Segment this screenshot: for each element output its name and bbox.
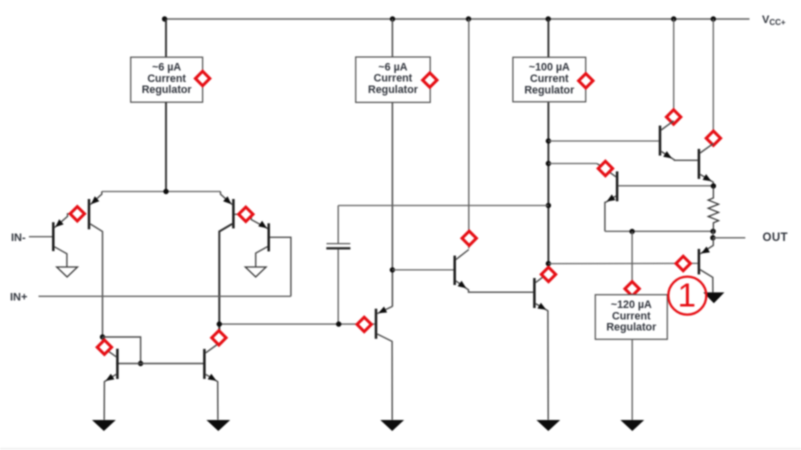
transistor Q6m emitter to ground	[206, 374, 218, 420]
wire Q9 base from U3 bus	[548, 140, 658, 142]
marker diamond on Q1-Q2 pair	[70, 207, 84, 221]
transistor Q9 collector diagonal	[661, 121, 674, 130]
svg-text:Current: Current	[612, 310, 651, 322]
current regulator U3 ~100uA box	[513, 57, 586, 102]
transistor Q10 NPN base bar	[698, 149, 701, 179]
node U3 bus to Q11 collector wire	[546, 161, 551, 166]
node U3 bus to compensation capacitor wire	[546, 203, 551, 208]
transistor Q4 base wire to IN+	[270, 237, 291, 296]
open arrow V- symbol under Q1	[57, 267, 78, 277]
capacitor C1 lead top	[337, 206, 339, 244]
wire resistor bottom to OUT node	[712, 231, 714, 238]
wire mirror node to mirror bases	[103, 337, 141, 364]
transistor Q6 NPN base bar	[453, 256, 456, 285]
transistor Q8 NPN base bar	[533, 278, 536, 308]
transistor Q8 collector	[536, 273, 549, 283]
transistor Q1 collector	[55, 247, 67, 267]
transistor Q2 emitter with arrow to emitter rail	[90, 192, 102, 205]
marker diamond on Q6m	[212, 331, 226, 345]
transistor Q2 collector wire down to mirror node	[90, 224, 102, 337]
node top rail junction at second-stage collector branch	[466, 16, 471, 21]
transistor Q11 emitter down	[605, 196, 616, 231]
transistor Q6m collector	[206, 343, 220, 353]
wire from rail to current regulator U3	[547, 19, 549, 57]
transistor Q4 collector	[256, 247, 268, 267]
node mirror base junction	[138, 361, 143, 366]
transistor Q7 collector to ground	[377, 334, 392, 420]
marker diamond on U3	[579, 74, 593, 88]
current regulator U2 ~6uA box	[356, 57, 431, 102]
marker diamond on Q10 collector	[706, 131, 720, 145]
marker diamond on U2	[423, 73, 437, 87]
wire IN- to Q1 base	[29, 236, 52, 238]
wire Q11 base to resistor top node	[618, 185, 713, 187]
current regulator U4 ~120uA box	[595, 295, 667, 340]
ground under Q6m	[206, 420, 230, 431]
node OUT junction	[710, 235, 715, 240]
wire compensation capacitor top plate to U3 bus	[338, 205, 548, 207]
transistor Q7 PNP base bar	[375, 309, 378, 339]
transistor Q2 input PNP base bar	[88, 199, 91, 229]
marker diamond on Q8	[541, 267, 555, 281]
node top rail junction at Q10 collector branch	[711, 16, 716, 21]
wire Q9 collector to rail	[673, 19, 675, 121]
wire rail down to second stage collector	[468, 19, 470, 249]
svg-text:Current: Current	[147, 73, 186, 85]
transistor Q11 collector to U3 bus wire	[597, 164, 616, 177]
wire input pair common emitter rail	[102, 191, 221, 193]
wire OUT terminal	[713, 237, 745, 239]
svg-text:Regulator: Regulator	[368, 84, 418, 96]
transistor Q7 emitter from U2 wire	[377, 306, 392, 313]
transistor Q1 emitter with arrow to base of Q2	[55, 214, 87, 228]
svg-text:Current: Current	[374, 73, 413, 85]
wire U3 output bus down to Q8 collector node	[547, 102, 549, 276]
wire from U1 down to input-pair emitter rail	[165, 102, 167, 191]
marker diamond on Q5	[97, 340, 111, 354]
marker diamond on Q3-Q4 pair	[239, 207, 253, 221]
ground under Q8	[536, 420, 560, 431]
node capacitor bottom junction	[336, 321, 341, 326]
transistor Q3 collector dark wire down to mirror node	[219, 224, 232, 343]
wire from U2 down to Q7 emitter	[391, 102, 393, 306]
node U3 bus to output base wire	[546, 261, 551, 266]
transistor Q6 collector	[456, 250, 469, 260]
wire output stage base drive from U3 bus	[548, 262, 697, 264]
marker diamond on Q7 base	[357, 317, 371, 331]
node top rail junction at Q9 collector branch	[671, 16, 676, 21]
transistor Q3 emitter with arrow to emitter rail	[221, 192, 233, 205]
wire U4 to ground	[631, 339, 633, 420]
node first-stage output mirror node left	[100, 334, 105, 339]
capacitor C1 lead bottom	[337, 250, 339, 325]
marker diamond on Q11	[598, 161, 612, 175]
transistor Q3 base wire to Q4 emitter	[235, 214, 268, 228]
svg-text:~6 µA: ~6 µA	[152, 62, 181, 74]
ground under Q5	[92, 420, 116, 431]
svg-text:1: 1	[678, 277, 696, 314]
transistor Q5 mirror NPN base bar	[116, 349, 119, 379]
transistor Q9 NPN base bar	[659, 126, 662, 156]
wire IN+ line	[39, 295, 291, 297]
marker diamond on Q12 base	[676, 256, 690, 270]
transistor Q12 emitter to OUT node	[700, 238, 713, 254]
transistor Q8 emitter to ground	[536, 304, 549, 420]
svg-text:Current: Current	[530, 73, 569, 85]
marker diamond on U1	[195, 71, 209, 85]
capacitor C1 plates	[327, 243, 351, 245]
wire Q10 collector to rail	[712, 19, 714, 144]
open arrow V- symbol under Q4	[245, 267, 266, 277]
marker diamond on Q9 collector	[666, 110, 680, 124]
transistor Q4 input PNP base bar	[267, 223, 270, 251]
svg-text:Regulator: Regulator	[524, 84, 574, 96]
svg-text:Regulator: Regulator	[606, 322, 656, 334]
V- arrow under Q12	[703, 292, 724, 303]
wire Q11 collector from U3 bus	[548, 163, 597, 165]
wire Q11 emitter to output emitter node	[605, 230, 713, 232]
svg-text:~100 µA: ~100 µA	[529, 62, 570, 74]
svg-text:~120 µA: ~120 µA	[611, 299, 652, 311]
transistor Q10 collector diagonal	[700, 144, 713, 153]
transistor Q3 input PNP base bar right pair	[232, 199, 235, 228]
wire U4 regulator top connection	[631, 232, 633, 295]
faint page rule at bottom	[0, 448, 801, 450]
node Q6 base junction on U2 wire	[390, 267, 395, 272]
svg-text:OUT: OUT	[763, 232, 788, 244]
svg-text:IN-: IN-	[11, 232, 26, 244]
transistor Q1 input PNP base bar	[52, 222, 55, 251]
ground under U4	[620, 420, 644, 431]
transistor Q6 emitter to Q8 base	[456, 281, 533, 292]
node resistor bottom junction	[710, 229, 715, 234]
node resistor top junction	[711, 183, 716, 188]
wire Q6 base	[392, 269, 453, 271]
marker diamond on U4	[625, 282, 639, 296]
transistor Q6m mirror NPN base bar	[203, 349, 206, 379]
transistor Q5 emitter to ground	[104, 374, 116, 420]
marker diamond on Q6 collector	[462, 231, 476, 245]
node U3 bus to Q9 base wire	[546, 138, 551, 143]
node top rail junction above ~100uA regulator	[546, 16, 551, 21]
wire mirror output node to second stage	[219, 323, 374, 325]
transistor Q12 collector to V-	[700, 270, 713, 293]
svg-text:~6 µA: ~6 µA	[378, 61, 407, 73]
annotation circled 1	[668, 277, 706, 315]
node regulator U4 tap junction	[629, 229, 634, 234]
wire mirror bases Q5 Q6m	[116, 363, 204, 365]
transistor Q5 collector diode connection	[103, 337, 117, 357]
svg-text:Regulator: Regulator	[142, 84, 192, 96]
node top rail junction above ~6uA regulator 2	[390, 16, 395, 21]
wire from rail to current regulator U1	[165, 19, 167, 57]
svg-text:VCC+: VCC+	[762, 14, 786, 27]
current regulator U1 ~6uA box	[131, 57, 203, 102]
transistor Q9 emitter to Q10 base	[661, 151, 698, 160]
transistor Q10 emitter to resistor top node	[700, 174, 713, 186]
transistor Q12 output PNP base bar	[698, 249, 701, 275]
ground under Q7	[380, 420, 404, 431]
resistor R1	[708, 186, 718, 231]
wire from rail to current regulator U2	[391, 19, 393, 57]
node junction of U1 wire and emitter rail	[163, 189, 168, 194]
node top rail junction above ~6uA regulator 1	[162, 16, 167, 21]
wire top VCC+ rail	[165, 18, 750, 20]
svg-text:IN+: IN+	[10, 291, 27, 303]
node mirror output	[217, 321, 222, 326]
transistor Q11 NPN base bar	[616, 171, 619, 201]
